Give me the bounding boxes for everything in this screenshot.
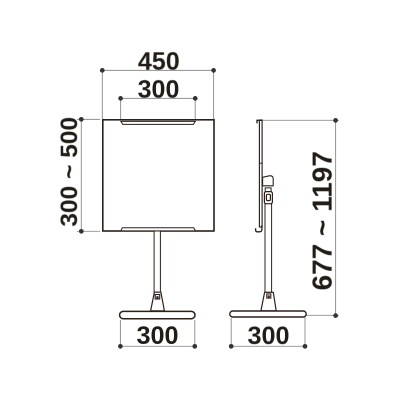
svg-text:300 ~ 500: 300 ~ 500 <box>56 117 83 227</box>
svg-text:450: 450 <box>138 48 180 76</box>
svg-text:300: 300 <box>138 76 180 104</box>
svg-text:300: 300 <box>136 322 178 350</box>
svg-text:677 ~ 1197: 677 ~ 1197 <box>307 151 338 290</box>
svg-text:300: 300 <box>247 322 289 350</box>
